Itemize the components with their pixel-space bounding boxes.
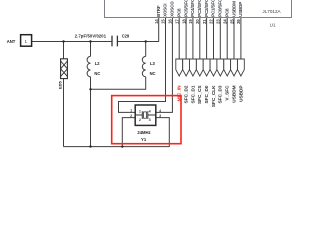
svg-text:V_SFC: V_SFC: [225, 85, 230, 101]
svg-text:XOSCO: XOSCO: [170, 1, 175, 17]
pin numbers 14-26: [154, 19, 241, 24]
svg-text:14: 14: [154, 19, 159, 24]
svg-text:PC8: PC8: [224, 8, 229, 17]
svg-text:BTRF: BTRF: [156, 5, 161, 17]
svg-text:JL7012A: JL7012A: [262, 9, 281, 14]
svg-text:SFC_CLK: SFC_CLK: [211, 85, 216, 107]
crystal symbol: [135, 114, 156, 116]
wire pin14 riser: [158, 18, 160, 42]
svg-text:2: 2: [139, 118, 141, 122]
svg-text:SFC_D3: SFC_D3: [218, 85, 223, 103]
svg-text:20: 20: [195, 19, 200, 24]
wire L3 branch: [145, 42, 147, 57]
wire main RF line: [32, 41, 159, 43]
svg-text:Y1: Y1: [141, 137, 147, 142]
svg-text:2.7pF/50V/0201: 2.7pF/50V/0201: [75, 33, 107, 38]
svg-text:15: 15: [161, 19, 166, 24]
wire ED5 branch: [63, 42, 65, 147]
svg-text:3: 3: [159, 114, 161, 118]
svg-text:PC1/SFC_CLK: PC1/SFC_CLK: [211, 0, 216, 17]
svg-text:17: 17: [174, 19, 179, 24]
svg-text:USBDP: USBDP: [238, 2, 243, 17]
inductor L2: [87, 56, 90, 76]
svg-text:19: 19: [188, 19, 193, 24]
svg-text:PC3/SFC_CS: PC3/SFC_CS: [197, 0, 202, 17]
svg-text:USBDM: USBDM: [231, 85, 236, 102]
wire L2-L3 bottom link: [91, 77, 146, 90]
svg-text:26: 26: [236, 19, 241, 24]
pin 14 BTRF: [156, 0, 243, 17]
ESD diode ED5: [61, 59, 68, 79]
red highlight box: [112, 96, 181, 144]
svg-text:1: 1: [130, 109, 132, 113]
svg-text:U1: U1: [270, 23, 276, 28]
wire L2 branch: [90, 42, 92, 147]
wire pin16 to crystal pin4: [156, 18, 173, 112]
svg-text:PC2/SFC_D0: PC2/SFC_D0: [204, 0, 209, 17]
svg-text:PC4/SFC_D1: PC4/SFC_D1: [190, 0, 195, 17]
svg-text:SFC_D2: SFC_D2: [184, 85, 189, 103]
svg-text:ED5: ED5: [57, 80, 62, 89]
svg-text:1: 1: [139, 110, 141, 114]
svg-text:SFC_D0: SFC_D0: [204, 85, 209, 103]
svg-text:L2: L2: [95, 61, 101, 66]
svg-text:2: 2: [130, 114, 132, 118]
connector pins 17-26 (off-page pentagons): [176, 59, 245, 76]
crystal pin digits inside: [130, 109, 162, 122]
svg-text:18: 18: [181, 19, 186, 24]
svg-text:22: 22: [209, 19, 214, 24]
wire pin15 to crystal top path: [119, 18, 166, 112]
svg-text:USBDP: USBDP: [238, 86, 243, 102]
svg-text:NC: NC: [94, 71, 100, 76]
svg-text:ANT: ANT: [7, 39, 16, 44]
svg-text:L3: L3: [150, 61, 156, 66]
net labels under connectors: [177, 85, 244, 107]
svg-text:USBDM: USBDM: [231, 1, 236, 17]
wire pins 17-26 stubs: [179, 18, 241, 59]
svg-text:3: 3: [149, 118, 151, 122]
svg-text:24: 24: [222, 19, 227, 24]
capacitor C29: [112, 36, 117, 47]
op-amp U1: [105, 0, 292, 18]
node junction dots: [62, 40, 147, 148]
crystal Y1 box: [135, 105, 156, 125]
svg-text:SFC_D1: SFC_D1: [190, 85, 195, 103]
svg-text:PC0/SFC_D3: PC0/SFC_D3: [218, 0, 223, 17]
svg-text:PC5/SFC_D2: PC5/SFC_D2: [183, 0, 188, 17]
svg-text:SFC_CS: SFC_CS: [197, 86, 202, 105]
inductor L3: [142, 56, 145, 76]
svg-text:24MHz: 24MHz: [137, 130, 150, 135]
svg-text:C29: C29: [122, 33, 130, 38]
wire crystal pin2 to rail: [122, 118, 135, 147]
svg-text:XOSCI: XOSCI: [163, 4, 168, 17]
svg-text:16: 16: [168, 19, 173, 24]
svg-text:PC8: PC8: [176, 8, 181, 17]
wire ground rail: [64, 118, 170, 147]
svg-text:NC: NC: [150, 71, 156, 76]
